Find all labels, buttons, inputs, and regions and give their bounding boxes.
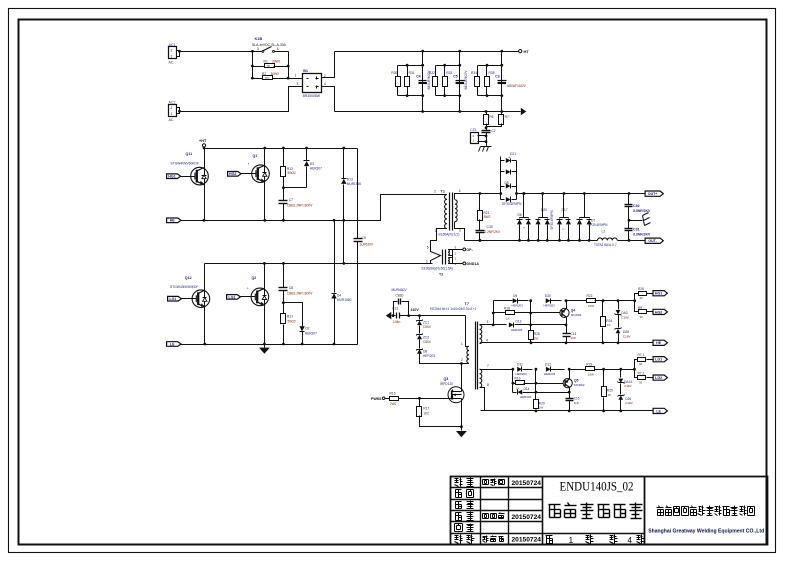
wire upper driver left column [493,301,495,325]
svg-text:C3: C3 [495,75,499,79]
svg-text:STGW40NV60KDF: STGW40NV60KDF [170,285,198,289]
svg-text:Shanghai Greatway Welding Equi: Shanghai Greatway Welding Equipment CO.,… [648,529,765,535]
zener DA6 [618,395,623,399]
svg-text:C56V: C56V [423,340,432,344]
svg-text:D20: D20 [541,208,547,212]
connector LE aux [653,408,667,413]
company name (Chinese) [657,507,664,509]
relay K1B [253,51,263,53]
transformer T7 secondary upper [480,325,482,343]
diode D2 [284,303,303,327]
terminal GND1A [453,263,463,265]
capacitor C13 [396,313,398,319]
wire cap group rail C5 [459,52,461,112]
svg-text:T1: T1 [441,190,445,194]
svg-text:D5: D5 [505,181,509,185]
svg-text:Q3: Q3 [444,377,449,381]
capacitor C5 [456,80,465,82]
svg-text:20: 20 [265,77,269,81]
capacitor C31 [625,228,633,230]
resistor R7 [501,112,503,115]
svg-text:HG2: HG2 [655,310,662,314]
resistor R12 [283,149,285,167]
svg-text:D3: D3 [310,162,314,166]
svg-text:680UF/400V: 680UF/400V [464,70,468,90]
diode D3 [306,149,308,161]
svg-text:R6: R6 [489,115,493,119]
svg-text:AC: AC [169,118,174,122]
svg-text:MCR92: MCR92 [571,313,582,317]
svg-text:104n: 104n [393,320,401,324]
svg-text:C9: C9 [362,236,366,240]
svg-text:IRFD120: IRFD120 [440,382,453,386]
svg-text:D6: D6 [518,213,522,217]
svg-text:R26: R26 [638,287,644,291]
connector LG1 aux [653,357,667,362]
svg-text:R7.1: R7.1 [638,353,645,357]
svg-text:20150724: 20150724 [512,514,542,521]
svg-text:Q1: Q1 [253,154,258,158]
resistor R72 to LG2 [635,370,638,378]
svg-text:GND1A: GND1A [466,262,479,266]
connector AC2 [169,105,177,117]
capacitor C9 [354,238,363,240]
svg-text:HG1: HG1 [655,292,662,296]
svg-text:20150724: 20150724 [512,480,542,487]
transformer T2 core [442,250,444,265]
terminal OP- [453,249,463,251]
diode pair D17 [563,194,565,218]
svg-text:HER307: HER307 [310,167,322,171]
svg-text:D13: D13 [347,178,353,182]
svg-text:8W2: 8W2 [484,215,491,219]
title block frame [451,477,768,545]
resistor R33 [443,77,448,87]
svg-text:R34: R34 [471,71,477,75]
resistor R34 [475,77,480,87]
svg-text:R17: R17 [423,406,429,410]
transistor Q11 [204,149,206,221]
svg-text:D8: D8 [423,350,427,354]
svg-text:C18V: C18V [623,335,631,339]
resistor R30 [396,77,401,87]
svg-text:R19: R19 [515,377,521,381]
svg-text:+HT: +HT [199,139,207,143]
svg-text:AC1: AC1 [169,43,176,47]
transformer T1 core [449,193,451,231]
diode D4 [334,221,336,293]
svg-text:3: 3 [487,320,489,324]
title block names [483,479,489,481]
svg-text:3: 3 [257,47,259,51]
resistor R22 [587,299,596,303]
svg-text:MUR460V: MUR460V [392,288,408,292]
svg-text:LG1: LG1 [169,297,176,301]
svg-text:HER203: HER203 [511,328,523,332]
svg-text:Q5: Q5 [574,379,579,383]
svg-text:HG1: HG1 [168,175,175,179]
wire upper driver output row [567,300,587,302]
svg-text:310V: 310V [411,308,420,312]
capacitor C32 [628,194,630,205]
svg-text:D2: D2 [305,327,309,331]
svg-text:HER203: HER203 [544,372,556,376]
svg-text:C31: C31 [633,227,640,231]
connector HG2 [228,172,241,177]
svg-text:5: 5 [427,245,429,249]
resistor R16 [390,397,399,401]
transistor Q4 [565,299,568,302]
resistor R31 [405,77,410,87]
title block page line [543,533,645,535]
connector OUT- [645,238,663,243]
wire lower driver bottom rail [481,410,654,412]
wire lower driver output row [570,369,587,371]
wire bottom DC rail (-) [335,111,521,113]
svg-text:HT: HT [524,49,530,54]
wire relay network left rail [252,52,254,79]
svg-text:D14: D14 [524,387,530,391]
svg-text:2: 2 [171,106,173,110]
inductor L2 [598,238,618,240]
capacitor C3 [498,80,507,82]
svg-text:32: 32 [639,380,643,384]
svg-text:C7: C7 [289,198,293,202]
svg-text:ENDU140JS_02: ENDU140JS_02 [560,480,634,494]
capacitor C30 [476,230,485,232]
resistor R13 [283,303,285,314]
off-page arrow right [521,108,527,116]
wire upper IGBT top rail [205,148,358,150]
svg-text:D13: D13 [516,320,522,324]
chassis ground below C2 [481,146,492,148]
zener DA5 [616,329,621,333]
svg-text:LG1: LG1 [655,358,662,362]
svg-text:1UF630V: 1UF630V [360,243,374,247]
svg-text:MUR1560: MUR1560 [347,182,362,186]
svg-text:CBB2.2NF/1600V: CBB2.2NF/1600V [287,292,313,296]
svg-text:2W: 2W [534,336,539,340]
resistor R28 [529,331,534,340]
wire upper driver mid column [530,301,532,331]
svg-text:D7: D7 [591,218,595,222]
svg-text:LE: LE [170,342,175,346]
svg-text:R7: R7 [505,115,509,119]
svg-text:2W2: 2W2 [390,402,397,406]
wire R12/D3 junction [284,187,307,189]
svg-text:R23: R23 [586,363,592,367]
capacitor C8 [283,264,285,288]
svg-text:PWM1: PWM1 [371,397,382,401]
wire T1 pin1 to T2 primary [431,229,447,249]
svg-text:R33: R33 [446,71,452,75]
svg-text:C2: C2 [491,129,495,133]
svg-text:3.3NF/2KV: 3.3NF/2KV [633,233,651,237]
wire B1 pin4 to bottom DC rail [322,87,335,112]
svg-text:1K: 1K [608,393,612,397]
svg-text:C820: C820 [396,293,404,297]
svg-text:R31: R31 [409,71,415,75]
zener ZC2 [417,335,422,340]
svg-text:BR35008W: BR35008W [303,94,321,98]
svg-text:D12: D12 [545,363,551,367]
svg-text:R22: R22 [587,294,593,298]
transistor Q2 [264,264,266,345]
resistor R17 [419,399,421,407]
svg-text:LG2: LG2 [655,376,662,380]
resistor R35 [485,77,490,87]
svg-text:OP-: OP- [466,248,473,252]
svg-text:D26: D26 [625,397,631,401]
svg-text:R18: R18 [504,307,510,311]
svg-text:32: 32 [640,315,644,319]
connector HG1 aux [653,291,667,296]
svg-text:B1: B1 [303,69,308,73]
connector CZ1 [471,133,479,144]
wire upper mid rail (emitter rail HE) [181,220,358,222]
svg-text:HER203: HER203 [520,395,532,399]
zener DA4 [620,370,622,378]
connector HG1 [167,174,181,179]
svg-text:30W1: 30W1 [272,60,281,64]
wire AC1 to relay network [179,51,253,53]
svg-text:1: 1 [171,55,173,59]
svg-text:4: 4 [277,47,279,51]
snubber loop capacitor C20 [394,302,398,316]
svg-text:K1B: K1B [255,37,263,41]
svg-text:T7: T7 [465,302,469,306]
diode pair D7 [584,194,586,218]
wire secondary bottom rail [461,229,465,241]
transformer T1 secondary [455,200,457,222]
svg-text:DA5: DA5 [623,330,629,334]
capacitor C7 [283,188,285,201]
title block table grid [480,477,482,545]
svg-text:C18V: C18V [621,316,629,320]
svg-text:MUR1560: MUR1560 [337,298,352,302]
svg-text:Q11: Q11 [186,152,193,156]
svg-text:5W22: 5W22 [288,171,297,175]
wire cap group rail C4 [422,52,424,112]
svg-text:C13: C13 [392,307,398,311]
svg-text:2W: 2W [539,406,544,410]
resistor R71 to LG1 [635,360,638,370]
title block row labels [455,478,459,480]
connector LG1 [168,296,182,301]
svg-text:STGW40NV60KDF: STGW40NV60KDF [171,162,199,166]
svg-text:1UF: 1UF [571,336,577,340]
chassis ground output mid [629,220,643,222]
svg-text:10W: 10W [588,304,594,308]
svg-text:R7.2: R7.2 [638,371,645,375]
current transformer T2 primary [431,249,441,264]
svg-text:R13: R13 [287,315,293,319]
svg-text:MCR92: MCR92 [574,383,585,387]
svg-text:1K: 1K [607,323,611,327]
svg-text:Q2: Q2 [252,276,257,280]
wire mid rail step to T1 primary pin2 [358,195,434,221]
svg-text:CBB2.2NF/1600V: CBB2.2NF/1600V [287,204,313,208]
wire cap group rail C3 [501,52,503,112]
wire upper driver bottom rail [482,342,653,344]
svg-text:DA13: DA13 [624,380,632,384]
svg-text:D21: D21 [510,152,516,156]
svg-text:HE: HE [656,341,662,345]
wire bracket R30/R31 [398,65,423,67]
svg-text:1: 1 [426,259,428,263]
transformer T1 primary [434,194,447,196]
svg-text:D11: D11 [517,363,523,367]
transistor Q1 [264,149,266,221]
svg-text:2: 2 [461,358,463,362]
diode pair D6 [523,194,525,218]
earth ground below Q2 [264,345,266,348]
svg-text:AC2: AC2 [169,101,176,105]
svg-text:7: 7 [487,364,489,368]
resistor R32 [433,77,438,87]
svg-text:4: 4 [459,189,461,193]
svg-text:20150724: 20150724 [512,537,542,544]
connector LG2 aux [653,375,667,380]
terminal +HT [202,144,205,147]
transformer T2 secondary [448,249,449,255]
svg-text:HER203: HER203 [516,372,528,376]
svg-text:R16: R16 [390,392,396,396]
transformer T7 primary [466,316,469,347]
transformer T7 core [475,322,477,390]
wire lower driver mid column [535,370,537,400]
resistor R29 [534,400,539,409]
resistor R6 [486,112,488,115]
diode D13 aux [494,324,507,326]
svg-text:D9: D9 [513,294,517,298]
wire output - rail [517,240,598,242]
diode D11 [517,367,522,372]
wire AC2 to bridge pin3 [179,87,303,112]
wire T1 secondary top rail [461,193,501,195]
svg-text:C56V: C56V [423,325,432,329]
svg-text:CZ1: CZ1 [470,128,477,132]
resistor R25 [603,370,605,387]
wire right bus rail with C9 [357,149,359,239]
connector LE [167,342,181,347]
svg-text:C4: C4 [416,75,420,79]
terminal HT [519,50,522,53]
resistor R23 [586,367,595,371]
resistor R2 [253,78,264,80]
svg-text:EE25x4 NH:1 1x10x24/0.31x1+1: EE25x4 NH:1 1x10x24/0.31x1+1 [430,307,477,311]
zener DA3 [618,301,620,310]
wire B1 pin2 to top DC rail [322,52,335,78]
wire bracket R34/R35 [478,65,502,67]
svg-text:C5: C5 [453,75,457,79]
svg-text:1: 1 [295,74,297,78]
svg-text:SF30-6FMPN: SF30-6FMPN [588,223,608,227]
diode D9 [494,300,513,302]
wire lower collector rail [205,263,433,265]
diode pair D20 [542,194,544,218]
capacitor C14 [563,333,571,335]
diode block D5 [501,186,505,188]
svg-text:HER203: HER203 [544,303,556,307]
svg-text:4: 4 [627,536,632,545]
title text main circuit schematic (Chinese) [549,504,561,506]
svg-text:SF30-6FMPN: SF30-6FMPN [502,202,522,206]
diode D30 [546,298,551,303]
transistor Q12 [204,264,206,345]
svg-text:R32: R32 [429,71,435,75]
wire bracket R32/R33 [436,65,460,67]
svg-text:EE30(6A)(N):60(1.5A): EE30(6A)(N):60(1.5A) [422,266,453,270]
svg-text:D17: D17 [562,208,568,212]
svg-text:EE65A(N):1(1): EE65A(N):1(1) [439,232,460,236]
svg-text:SF30-6FMPN: SF30-6FMPN [550,210,554,230]
svg-text:C8: C8 [289,286,293,290]
svg-text:T0TA2 6A/A-0.7: T0TA2 6A/A-0.7 [594,243,617,247]
connector OUT+ [645,191,663,196]
capacitor C4 [419,80,427,82]
svg-text:Q4: Q4 [571,308,576,312]
resistor R21 [479,194,481,211]
svg-text:D30: D30 [545,294,551,298]
connector HE [167,218,181,223]
wire output + rail [517,193,645,195]
svg-text:C18V: C18V [624,384,632,388]
earth ground below Q3 [456,431,467,437]
wire relay network right rail [288,52,290,79]
svg-text:HER203: HER203 [512,303,524,307]
resistor R19 [513,383,516,385]
svg-text:C32: C32 [633,204,640,208]
svg-text:C18V: C18V [625,401,633,405]
svg-text:2: 2 [171,49,173,53]
resistor R19p to HG2 [635,301,639,312]
svg-text:LE: LE [656,409,661,413]
svg-text:HER203: HER203 [423,354,435,358]
svg-text:32: 32 [639,362,643,366]
resistor R26 to HG1 [635,294,639,301]
svg-text:OUT-: OUT- [648,239,657,243]
capacitor C15 [566,398,574,400]
svg-text:1K2: 1K2 [423,411,429,415]
transformer T7 secondary lower [480,369,482,387]
diode block D21 [500,157,502,194]
svg-text:1K: 1K [506,317,510,321]
connector AC1 [169,47,177,59]
svg-text:LG2: LG2 [228,295,235,299]
wire lower emitter rail LE [181,344,358,346]
svg-text:2: 2 [434,190,436,194]
off-page arrow left (+310V feed) [386,312,392,320]
svg-text:680UF/400V: 680UF/400V [507,84,526,88]
svg-text:5W22: 5W22 [288,319,297,323]
svg-text:4: 4 [486,338,488,342]
svg-text:R1: R1 [264,60,268,64]
diode D8 [417,349,422,354]
svg-text:3: 3 [297,82,299,86]
svg-text:C30: C30 [487,225,493,229]
svg-text:4: 4 [324,82,326,86]
svg-text:R30: R30 [391,71,397,75]
diode D14 [513,392,517,394]
transistor Q5 [568,368,571,371]
transistor Q3 mosfet [461,364,463,387]
svg-text:HE: HE [170,219,176,223]
diode D12 [546,367,551,372]
svg-text:HER307: HER307 [305,331,317,335]
svg-text:1UF: 1UF [574,401,580,405]
svg-text:OUT+: OUT+ [648,192,657,196]
